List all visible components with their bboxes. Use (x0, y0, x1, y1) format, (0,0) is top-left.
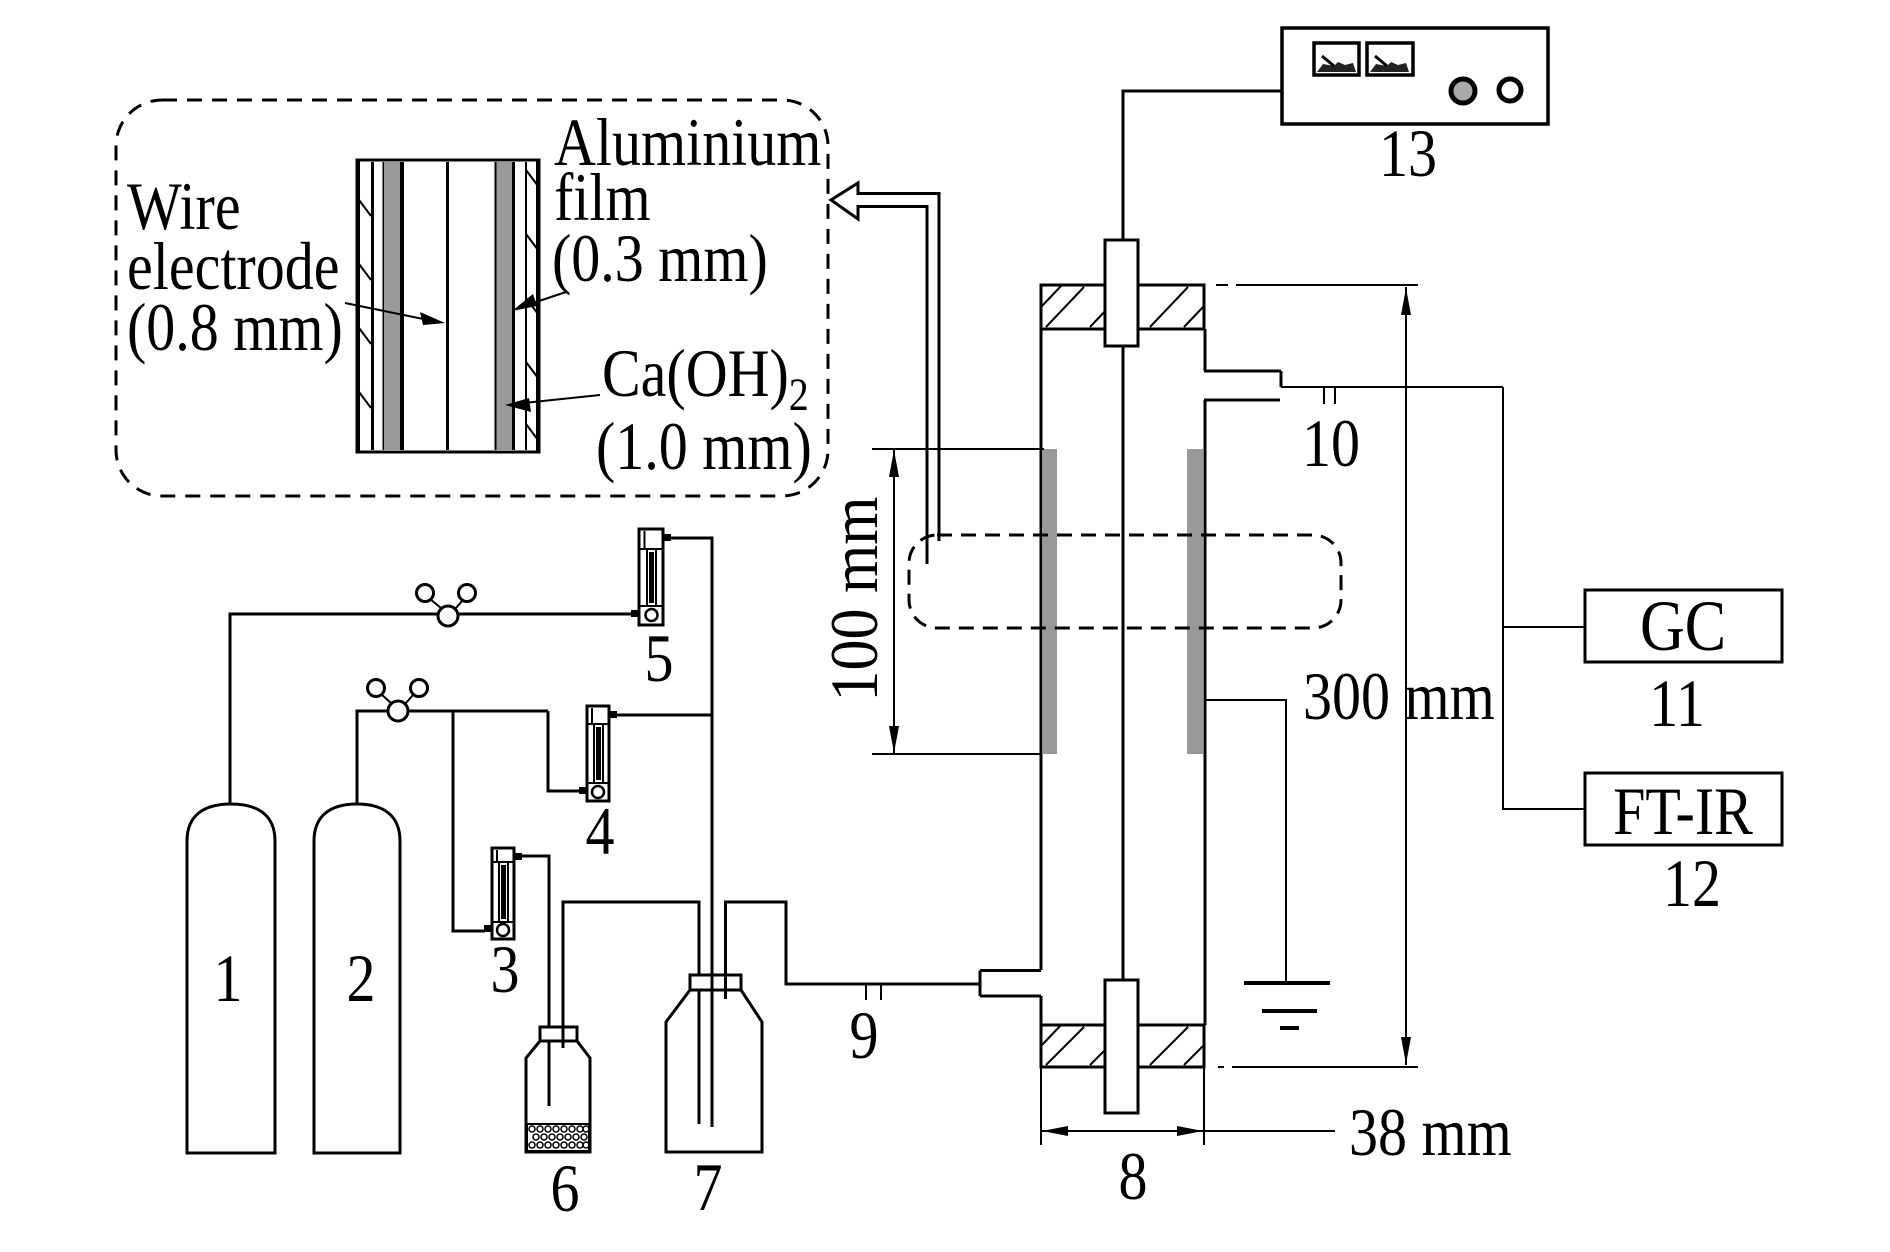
svg-text:5: 5 (644, 621, 673, 696)
wire cylinder1 to flow meter 5 (230, 614, 632, 804)
dimension 100 mm extension bottom (872, 753, 1041, 755)
bottom electrode holder over flange (1105, 980, 1138, 1113)
svg-text:2: 2 (346, 941, 375, 1016)
leader arrow wire electrode (345, 303, 445, 325)
label 5 (644, 621, 673, 696)
reactor top flange (1041, 285, 1204, 329)
wire junction down to flow meter 3 (453, 711, 485, 931)
svg-text:7: 7 (693, 1150, 722, 1225)
knob 2 of 13 (1499, 79, 1521, 101)
dimension 100 mm line (889, 449, 899, 754)
label Ca(OH)2 (1.0 mm) (596, 336, 812, 484)
pressure regulator on cylinder 1 (417, 585, 476, 627)
label 100 mm vertical (817, 496, 892, 701)
svg-text:6: 6 (550, 1151, 579, 1226)
svg-text:11: 11 (1649, 666, 1705, 741)
svg-text:GC: GC (1640, 586, 1726, 666)
port 10 tick marks (1324, 388, 1335, 404)
wire meter4 output (617, 714, 712, 717)
reactor right wall (1204, 329, 1207, 1025)
label 6 (550, 1151, 579, 1226)
label Aluminium film (0.3 mm) (552, 105, 821, 296)
label 11 (1649, 666, 1705, 741)
dimension 38 mm line (1041, 1126, 1335, 1136)
bottle 7 dip tube from meters (711, 904, 714, 1127)
inset electrode cross-section (357, 160, 539, 452)
label 300 mm (1303, 659, 1495, 734)
label 10 (1302, 406, 1360, 481)
svg-text:(0.3 mm): (0.3 mm) (552, 221, 768, 296)
ground wire (1204, 700, 1286, 981)
leader arrow aluminium film (512, 292, 566, 311)
central wire electrode (1122, 346, 1125, 980)
bottom electrode holder (1105, 980, 1138, 1113)
wire cylinder2 to junction (357, 711, 548, 804)
label 13 (1379, 116, 1437, 191)
wire meter3 to bottle 6 (522, 856, 549, 1106)
bottle 7 outlet tube (726, 902, 981, 999)
label 7 (693, 1150, 722, 1225)
bottle 6 outlet to bottle 7 (563, 902, 699, 1124)
svg-text:1: 1 (213, 941, 242, 1016)
gas cylinder 2 (314, 804, 400, 1153)
discharge zone dashed capsule (909, 535, 1341, 628)
wire meter5 to bottle 7 line (671, 538, 712, 904)
outlet port 10 (1204, 371, 1281, 400)
svg-text:3: 3 (490, 932, 519, 1007)
svg-text:10: 10 (1302, 406, 1360, 481)
svg-text:4: 4 (585, 794, 614, 869)
svg-text:300 mm: 300 mm (1303, 659, 1495, 734)
svg-text:8: 8 (1118, 1139, 1147, 1214)
bottle 6 liquid (527, 1124, 589, 1151)
label 3 (490, 932, 519, 1007)
block arrow callout to inset (831, 183, 939, 564)
svg-text:Ca(OH)2: Ca(OH)2 (602, 336, 809, 421)
meter right of 13 (1367, 43, 1413, 75)
dimension 300 mm extension bottom (1218, 1066, 1418, 1068)
FT-IR box (1585, 773, 1782, 849)
bottle 7 (666, 975, 762, 1152)
dimension 100 mm extension top (872, 448, 1044, 450)
inset hatch ticks right wall (526, 170, 538, 440)
label 12 (1663, 846, 1721, 921)
svg-text:FT-IR: FT-IR (1613, 774, 1753, 849)
power supply box 13 (1282, 28, 1548, 124)
knob 1 of 13 (1451, 79, 1475, 103)
label 9 (849, 998, 878, 1073)
svg-text:(1.0 mm): (1.0 mm) (596, 409, 812, 484)
wire junction to flow meter 4 (548, 711, 580, 791)
gas line from outlet (1281, 386, 1503, 388)
pressure regulator on cylinder 2 (368, 680, 428, 722)
svg-text:12: 12 (1663, 846, 1721, 921)
flow meter 5 (631, 529, 671, 625)
label 4 (585, 794, 614, 869)
line 9 tick marks (866, 984, 881, 1000)
inset hatch ticks left wall (359, 200, 371, 408)
wire from 13 to top electrode holder (1123, 91, 1282, 242)
reactor left wall (1040, 329, 1043, 1025)
junction line to GC and FT-IR (1503, 387, 1585, 809)
left ground electrode film (1042, 449, 1057, 754)
ground symbol (1244, 983, 1330, 1028)
top electrode holder (1105, 240, 1138, 346)
svg-text:(0.8 mm): (0.8 mm) (127, 290, 343, 365)
label 38 mm (1349, 1095, 1512, 1170)
leader arrow Ca(OH)2 (505, 395, 600, 412)
inlet port 9 side (980, 971, 1041, 997)
svg-text:38 mm: 38 mm (1349, 1095, 1512, 1170)
flow meter 3 (484, 848, 522, 939)
dimension 300 mm line (1401, 287, 1411, 1065)
svg-text:9: 9 (849, 998, 878, 1073)
reactor bottom flange (1041, 1025, 1204, 1067)
gas cylinder 1 (187, 804, 275, 1153)
meter left of 13 (1314, 43, 1359, 75)
GC box (1585, 586, 1782, 666)
label Wire electrode (0.8 mm) (127, 169, 343, 365)
right ground electrode film (1187, 449, 1203, 754)
bottle 6 (526, 1027, 590, 1152)
dimension 38 mm extension lines (1041, 1067, 1204, 1145)
flow meter 4 (579, 706, 617, 801)
label 8 (1118, 1139, 1147, 1214)
inset dashed callout box (116, 100, 828, 496)
dimension 300 mm extension top (1216, 284, 1418, 286)
svg-text:13: 13 (1379, 116, 1437, 191)
svg-text:100 mm: 100 mm (817, 496, 892, 701)
